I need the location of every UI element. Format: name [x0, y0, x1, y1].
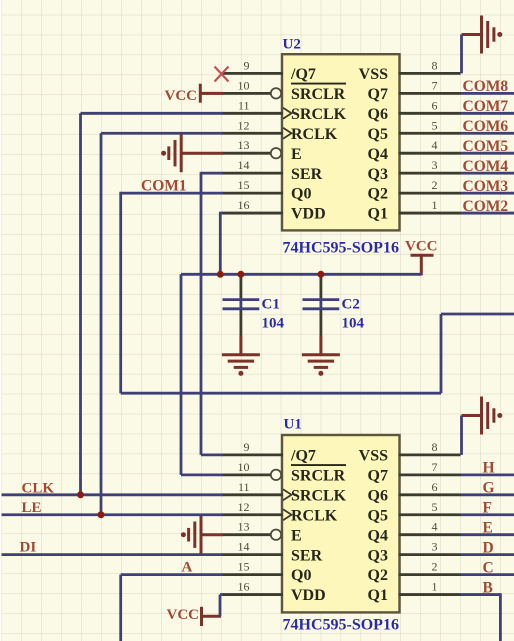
pin 12 (RCLK) with number label — [222, 118, 292, 139]
junction dot (C1/VCC rail) — [237, 271, 244, 278]
svg-text:2: 2 — [432, 178, 438, 192]
wire COM3 net (U2 Q2 row) — [461, 192, 514, 195]
pin 8 (VSS) with number label — [399, 58, 461, 73]
pin 16 (VDD) with number label — [222, 198, 283, 213]
svg-text:Q1: Q1 — [368, 206, 388, 223]
svg-text:COM5: COM5 — [463, 138, 509, 155]
IC U2 body (74HC595 rectangle) — [282, 54, 400, 230]
svg-text:15: 15 — [238, 560, 250, 574]
wire net G (U1 output) — [461, 493, 514, 496]
svg-text:Q7: Q7 — [368, 467, 388, 484]
svg-text:F: F — [483, 499, 492, 516]
svg-text:Q0: Q0 — [291, 186, 311, 203]
pin 10 (SRCLR) with number label — [222, 78, 281, 98]
pin 3 (Q3) with number label — [399, 540, 461, 555]
svg-text:Q6: Q6 — [368, 487, 388, 504]
svg-text:9: 9 — [244, 58, 250, 72]
wire U1 VDD to VCC power port — [220, 595, 223, 617]
svg-text:COM6: COM6 — [463, 118, 509, 135]
svg-text:8: 8 — [432, 58, 438, 72]
svg-text:10: 10 — [238, 78, 250, 92]
pin 16 (VDD) with number label — [222, 580, 283, 595]
capacitor C2 — [303, 274, 340, 355]
pin 2 (Q2) with number label — [399, 178, 461, 193]
svg-text:SER: SER — [291, 547, 323, 564]
svg-text:1: 1 — [432, 580, 438, 594]
wire cascade U2 SER to U1 /Q7 — [201, 172, 223, 455]
power port VCC at U2 pin 10 — [165, 84, 224, 104]
power port VCC at U1 pin 16 — [167, 607, 222, 626]
wire COM7 net (U2 Q6 row) — [461, 112, 514, 115]
svg-text:12: 12 — [238, 500, 250, 514]
svg-text:RCLK: RCLK — [291, 507, 338, 524]
svg-text:U1: U1 — [284, 417, 302, 433]
wire DI horizontal line to U1 SER — [2, 553, 224, 556]
svg-text:Q4: Q4 — [368, 527, 388, 544]
svg-text:104: 104 — [262, 316, 285, 332]
svg-text:VCC: VCC — [165, 88, 198, 104]
svg-text:E: E — [483, 519, 493, 536]
wire net C (U1 output) — [461, 573, 514, 576]
svg-text:COM7: COM7 — [463, 98, 509, 115]
svg-text:SER: SER — [291, 166, 323, 183]
svg-text:SRCLK: SRCLK — [291, 487, 347, 504]
wire CLK vertical branch to U2 SRCLK — [81, 113, 224, 495]
svg-text:4: 4 — [432, 138, 438, 152]
svg-text:Q5: Q5 — [368, 507, 388, 524]
svg-text:13: 13 — [238, 138, 250, 152]
svg-text:7: 7 — [432, 78, 438, 92]
svg-text:/Q7: /Q7 — [290, 66, 316, 83]
svg-text:COM2: COM2 — [463, 198, 509, 215]
junction dot (CLK) — [77, 491, 84, 498]
svg-text:12: 12 — [238, 118, 250, 132]
svg-text:VCC: VCC — [167, 607, 200, 623]
wire net H (U1 output) — [461, 473, 514, 476]
pin 14 (SER) with number label — [222, 540, 283, 555]
wire COM2 net (U2 Q1 row) — [461, 212, 514, 215]
svg-text:9: 9 — [244, 440, 250, 454]
svg-text:2: 2 — [432, 560, 438, 574]
pin 15 (Q0) with number label — [222, 560, 283, 575]
svg-text:LE: LE — [22, 500, 42, 516]
IC U1 body (74HC595 rectangle) — [282, 435, 400, 612]
svg-text:7: 7 — [432, 460, 438, 474]
svg-text:E: E — [291, 527, 302, 544]
svg-text:16: 16 — [238, 198, 250, 212]
wire net A from bottom edge to U1 Q0 — [121, 575, 223, 641]
svg-text:VDD: VDD — [291, 206, 326, 223]
pin 7 (Q7) with number label — [399, 460, 461, 475]
wire CLK horizontal line — [2, 493, 224, 496]
svg-text:VDD: VDD — [291, 587, 326, 604]
svg-text:VSS: VSS — [359, 66, 388, 83]
svg-text:Q5: Q5 — [368, 126, 388, 143]
svg-text:6: 6 — [432, 98, 438, 112]
pin 4 (Q4) with number label — [399, 138, 461, 153]
svg-text:H: H — [483, 460, 495, 477]
svg-text:Q0: Q0 — [291, 567, 311, 584]
ground at C1 — [222, 355, 260, 376]
pin 7 (Q7) with number label — [399, 78, 461, 93]
svg-text:6: 6 — [432, 480, 438, 494]
ground at U1 pin 13 (E) — [181, 516, 223, 554]
svg-text:U2: U2 — [283, 36, 301, 52]
ground at U1 pin 8 (VSS) — [462, 397, 503, 435]
junction dot (VDD/VCC rail) — [217, 271, 224, 278]
wire COM6 net (U2 Q5 row) — [461, 132, 514, 135]
wire net B (U1 Q1) turning down to bottom edge — [461, 593, 501, 641]
pin 11 (SRCLK) with number label — [222, 98, 292, 119]
wire LE vertical branch to U2 RCLK — [101, 133, 223, 515]
pin 11 (SRCLK) with number label — [222, 480, 292, 501]
pin 8 (VSS) with number label — [399, 440, 461, 455]
svg-text:/Q7: /Q7 — [290, 448, 316, 465]
ground at U2 pin 13 (E) — [161, 134, 223, 172]
pin 15 (Q0) with number label — [222, 178, 283, 193]
pin 4 (Q4) with number label — [399, 520, 461, 535]
svg-text:COM4: COM4 — [463, 158, 509, 175]
wire net F (U1 output) — [461, 513, 514, 516]
wire COM5 net (U2 Q4 row) — [461, 152, 514, 155]
pin 3 (Q3) with number label — [399, 158, 461, 173]
wire VCC rail left end down to U1 SRCLR — [181, 274, 223, 475]
wire U2 VDD down to VCC rail — [220, 212, 223, 275]
svg-text:10: 10 — [238, 460, 250, 474]
svg-text:D: D — [483, 539, 494, 556]
wire U1 pin8 VSS to ground — [460, 416, 463, 455]
pin 6 (Q6) with number label — [399, 480, 461, 495]
svg-text:Q4: Q4 — [368, 146, 388, 163]
svg-text:Q6: Q6 — [368, 106, 388, 123]
svg-text:11: 11 — [238, 98, 250, 112]
pin 1 (Q1) with number label — [399, 580, 461, 595]
junction dot (C2/VCC rail) — [317, 271, 324, 278]
svg-text:Q2: Q2 — [368, 186, 388, 203]
capacitor C1 — [223, 274, 260, 355]
svg-text:13: 13 — [238, 520, 250, 534]
wire net E (U1 output) — [461, 533, 514, 536]
svg-text:16: 16 — [238, 580, 250, 594]
pin 1 (Q1) with number label — [399, 198, 461, 213]
svg-text:74HC595-SOP16: 74HC595-SOP16 — [283, 617, 399, 634]
svg-text:C: C — [483, 559, 494, 576]
pin 13 (E) with number label — [222, 138, 281, 158]
wire COM4 net (U2 Q3 row) — [461, 172, 514, 175]
svg-text:14: 14 — [238, 540, 250, 554]
svg-text:CLK: CLK — [22, 480, 55, 496]
svg-text:RCLK: RCLK — [291, 126, 338, 143]
junction dot (LE) — [98, 511, 105, 518]
pin 13 (E) with number label — [222, 520, 281, 540]
svg-text:B: B — [483, 579, 493, 596]
svg-text:E: E — [291, 146, 302, 163]
svg-text:C1: C1 — [262, 297, 280, 313]
pin 5 (Q5) with number label — [399, 500, 461, 515]
svg-text:G: G — [483, 480, 495, 497]
svg-text:A: A — [182, 560, 193, 576]
ground at C2 — [302, 355, 340, 376]
pin 9 (/Q7) with number label — [222, 58, 283, 73]
svg-text:VSS: VSS — [359, 448, 388, 465]
svg-text:3: 3 — [432, 158, 438, 172]
pin 14 (SER) with number label — [222, 158, 283, 173]
svg-text:5: 5 — [432, 118, 438, 132]
svg-text:Q3: Q3 — [368, 547, 388, 564]
pin 9 (/Q7) with number label — [222, 440, 283, 455]
svg-text:4: 4 — [432, 520, 438, 534]
svg-text:1: 1 — [432, 198, 438, 212]
svg-text:SRCLK: SRCLK — [291, 106, 347, 123]
svg-text:C2: C2 — [342, 297, 360, 313]
svg-text:COM8: COM8 — [463, 78, 509, 95]
svg-text:COM3: COM3 — [463, 178, 509, 195]
svg-text:74HC595-SOP16: 74HC595-SOP16 — [283, 240, 399, 257]
svg-text:SRCLR: SRCLR — [291, 467, 346, 484]
wire COM1 net from U2 Q0 down and out right — [121, 192, 514, 393]
no-ERC cross marker on U2 pin 9 — [215, 67, 229, 82]
svg-text:14: 14 — [238, 158, 250, 172]
pin 2 (Q2) with number label — [399, 560, 461, 575]
wire VCC rail horizontal — [181, 273, 421, 276]
svg-text:Q1: Q1 — [368, 587, 388, 604]
svg-text:COM1: COM1 — [141, 177, 187, 194]
pin 6 (Q6) with number label — [399, 98, 461, 113]
svg-text:VCC: VCC — [405, 239, 438, 255]
svg-text:Q2: Q2 — [368, 567, 388, 584]
wire net D (U1 output) — [461, 553, 514, 556]
svg-text:8: 8 — [432, 440, 438, 454]
wire LE horizontal line — [2, 513, 224, 516]
svg-text:15: 15 — [238, 178, 250, 192]
power port VCC above rail — [405, 239, 438, 276]
wire U2 pin8 VSS to ground — [460, 35, 463, 74]
svg-text:Q3: Q3 — [368, 166, 388, 183]
svg-text:3: 3 — [432, 540, 438, 554]
svg-text:5: 5 — [432, 500, 438, 514]
ground at U2 pin 8 (VSS) — [462, 16, 503, 54]
pin 12 (RCLK) with number label — [222, 500, 292, 521]
svg-text:11: 11 — [238, 480, 250, 494]
wire COM8 net (U2 Q7 row) — [461, 92, 514, 95]
svg-text:SRCLR: SRCLR — [291, 86, 346, 103]
svg-text:104: 104 — [342, 316, 365, 332]
svg-text:DI: DI — [20, 540, 37, 556]
pin 5 (Q5) with number label — [399, 118, 461, 133]
svg-text:Q7: Q7 — [368, 86, 388, 103]
pin 10 (SRCLR) with number label — [222, 460, 281, 480]
